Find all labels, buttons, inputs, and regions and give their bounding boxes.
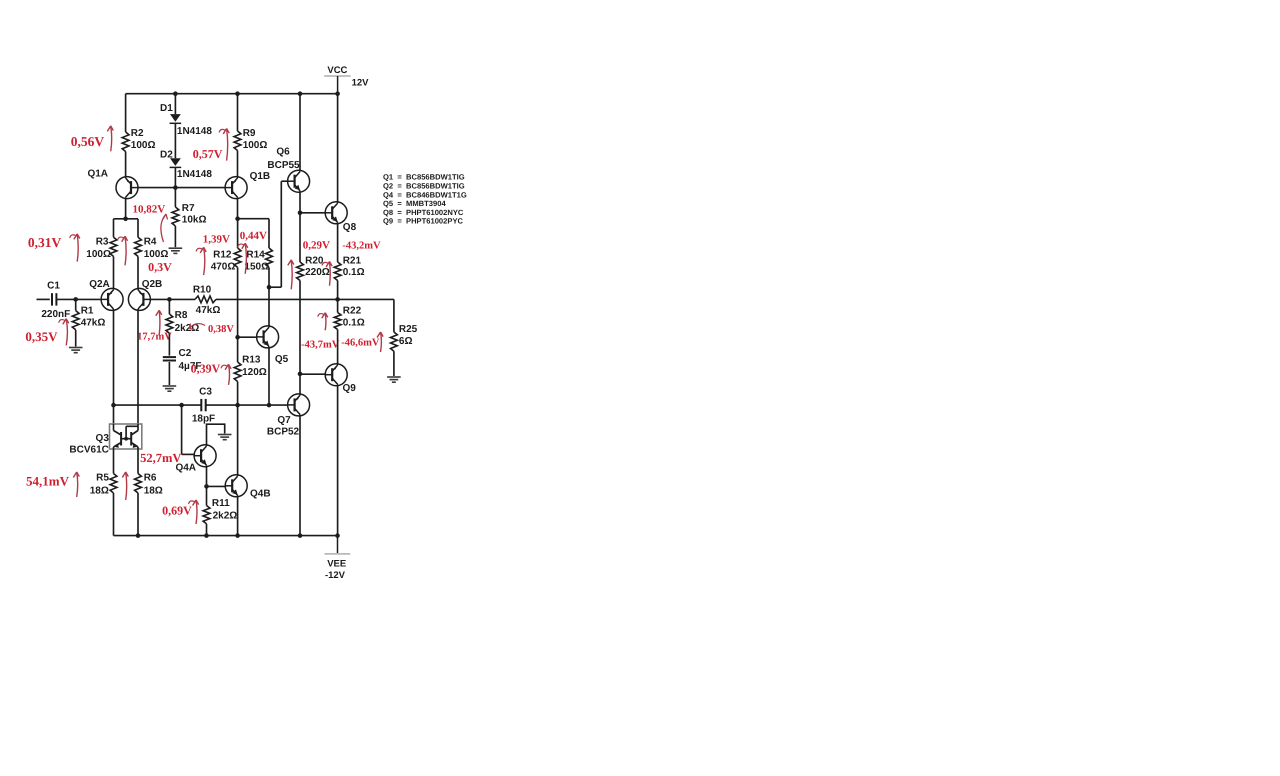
red label 0,35V bbox=[25, 329, 58, 344]
svg-text:-43,2mV: -43,2mV bbox=[342, 241, 381, 252]
svg-text:47kΩ: 47kΩ bbox=[196, 305, 221, 316]
wire C1 to Q2A base bbox=[56, 297, 100, 302]
resistor R9 bbox=[234, 94, 267, 151]
wire Q7 emitter to VEE rail bbox=[299, 416, 301, 536]
svg-text:0.1Ω: 0.1Ω bbox=[343, 267, 365, 278]
svg-text:VCC: VCC bbox=[327, 65, 347, 76]
svg-text:Q1A: Q1A bbox=[87, 169, 108, 180]
red label 0,39V bbox=[191, 362, 221, 376]
ground at Q4A bbox=[218, 435, 232, 440]
svg-text:Q3: Q3 bbox=[96, 433, 110, 444]
resistor R5 bbox=[90, 449, 117, 536]
red label 52,7mV bbox=[140, 451, 181, 465]
svg-text:0,69V: 0,69V bbox=[162, 504, 192, 518]
svg-text:R13: R13 bbox=[242, 355, 261, 366]
ground at C2 bbox=[163, 386, 177, 391]
wire Q8 collector bbox=[337, 94, 339, 202]
svg-text:Q2B: Q2B bbox=[142, 279, 163, 290]
wire Q4B emitter bbox=[237, 497, 239, 536]
svg-text:10kΩ: 10kΩ bbox=[182, 214, 207, 225]
svg-text:120Ω: 120Ω bbox=[242, 367, 267, 378]
svg-text:10,82V: 10,82V bbox=[133, 204, 166, 216]
svg-text:R20: R20 bbox=[305, 255, 324, 266]
transistor Q2B bbox=[128, 288, 150, 310]
wire VEE bottom rail bbox=[114, 533, 340, 538]
wire R8 to C2 bbox=[168, 333, 170, 355]
svg-text:C3: C3 bbox=[199, 387, 212, 398]
wire R22 to Q9 bbox=[337, 330, 339, 364]
svg-text:0,29V: 0,29V bbox=[303, 240, 330, 252]
wire Q8 base bbox=[300, 212, 325, 214]
wire R20 to Q7 bbox=[298, 281, 303, 394]
resistor R4 bbox=[135, 236, 169, 260]
label Q1B bbox=[250, 171, 271, 182]
wire Q1A base bbox=[138, 185, 178, 190]
wire Q4B collector bbox=[237, 405, 239, 475]
red label 17,7mV bbox=[137, 332, 172, 343]
wire R14 to Q6 base bbox=[269, 181, 288, 287]
svg-text:Q1B: Q1B bbox=[250, 171, 271, 182]
label Q4B bbox=[250, 489, 271, 500]
label Q3 bbox=[96, 433, 110, 444]
label Q9 bbox=[343, 383, 357, 394]
label Q7 type BCP52 bbox=[267, 426, 300, 437]
svg-text:0,56V: 0,56V bbox=[71, 134, 105, 149]
red arrow at R7 bbox=[161, 214, 168, 242]
svg-text:D2: D2 bbox=[160, 149, 173, 160]
red label 1,39V bbox=[203, 234, 230, 246]
ground at R7 bbox=[169, 248, 183, 253]
transistor Q2A bbox=[101, 288, 123, 310]
power symbol VEE bbox=[325, 536, 351, 581]
svg-text:Q5 = MMBT3904: Q5 = MMBT3904 bbox=[383, 199, 446, 208]
capacitor C2 bbox=[163, 348, 202, 372]
transistor Q4B bbox=[225, 475, 247, 497]
svg-text:Q9: Q9 bbox=[343, 383, 357, 394]
resistor R13 bbox=[234, 355, 267, 405]
wire Q9 emitter bbox=[337, 386, 339, 536]
svg-text:R21: R21 bbox=[343, 255, 362, 266]
svg-text:18pF: 18pF bbox=[192, 414, 215, 425]
label Q2B bbox=[142, 279, 163, 290]
wire Q6 collector bbox=[299, 94, 301, 171]
capacitor C1 bbox=[41, 281, 70, 321]
svg-text:17,7mV: 17,7mV bbox=[137, 332, 172, 343]
label Q5 bbox=[275, 354, 289, 365]
wire Q2B base to R10 bbox=[150, 297, 195, 302]
ground at R1 bbox=[69, 348, 83, 353]
svg-text:470Ω: 470Ω bbox=[211, 261, 236, 272]
svg-text:-12V: -12V bbox=[325, 570, 346, 581]
svg-text:R25: R25 bbox=[399, 324, 418, 335]
label Q8 bbox=[343, 222, 357, 233]
svg-text:Q4B: Q4B bbox=[250, 489, 271, 500]
resistor R14 bbox=[238, 219, 273, 290]
transistor Q5 bbox=[257, 326, 279, 348]
svg-text:R6: R6 bbox=[144, 473, 157, 484]
red arrow right of 54,1mV bbox=[73, 472, 79, 497]
svg-text:R12: R12 bbox=[213, 250, 232, 261]
svg-text:100Ω: 100Ω bbox=[131, 140, 156, 151]
red label -43,2mV bbox=[342, 241, 381, 252]
red arrow right of 0,69V bbox=[189, 500, 199, 524]
red label 0,44V bbox=[240, 230, 267, 242]
resistor R20 bbox=[297, 255, 330, 280]
wire node to Q1B base bbox=[175, 187, 225, 189]
svg-text:18Ω: 18Ω bbox=[90, 486, 109, 497]
transistor pair Q3 current mirror bbox=[110, 424, 142, 449]
label Q7 bbox=[277, 415, 291, 426]
diode D1 bbox=[160, 94, 212, 138]
label Q3 type BCV61C bbox=[69, 444, 108, 455]
red arrow between R20 R21 bbox=[322, 262, 332, 286]
resistor R10 bbox=[193, 284, 221, 316]
svg-text:12V: 12V bbox=[352, 78, 370, 89]
wire R9 to Q1B bbox=[237, 151, 239, 177]
red label -46,6mV bbox=[341, 338, 380, 349]
red label -43,7mV bbox=[301, 339, 340, 350]
wire Q4A collector to ground bbox=[207, 424, 225, 445]
svg-text:0,35V: 0,35V bbox=[25, 329, 58, 344]
resistor R21 bbox=[334, 255, 364, 280]
red label 54,1mV bbox=[26, 474, 70, 489]
label Q6 type BCP55 bbox=[267, 160, 300, 171]
svg-text:0,39V: 0,39V bbox=[191, 362, 221, 376]
wire Q9 base bbox=[300, 373, 326, 375]
ground at R25 bbox=[387, 377, 401, 382]
resistor R12 bbox=[211, 219, 241, 362]
wire C2 to ground bbox=[168, 362, 170, 385]
red label 10,82V bbox=[133, 204, 166, 216]
svg-text:R22: R22 bbox=[343, 306, 362, 317]
svg-text:220Ω: 220Ω bbox=[305, 267, 330, 278]
power symbol VCC bbox=[324, 65, 369, 94]
svg-text:VEE: VEE bbox=[327, 559, 346, 570]
red arrow between R5 R6 bbox=[122, 472, 128, 500]
wire Q5 collector bbox=[268, 287, 270, 326]
red label 0,38V bbox=[208, 324, 234, 335]
resistor R6 bbox=[135, 449, 163, 536]
red arrow at R9 bbox=[219, 129, 229, 161]
capacitor C3 bbox=[192, 387, 215, 425]
svg-text:1N4148: 1N4148 bbox=[177, 126, 212, 137]
wire Q5 base bbox=[235, 335, 256, 340]
svg-text:Q4 = BC846BDW1T1G: Q4 = BC846BDW1T1G bbox=[383, 190, 467, 199]
red arrow left of R22 bbox=[318, 313, 328, 331]
svg-text:Q2 = BC856BDW1TIG: Q2 = BC856BDW1TIG bbox=[383, 182, 465, 191]
transistor Q1B bbox=[225, 177, 247, 199]
red arrow at R2 bbox=[107, 126, 113, 151]
svg-text:-46,6mV: -46,6mV bbox=[341, 338, 380, 349]
svg-text:R14: R14 bbox=[246, 250, 265, 261]
svg-text:0.1Ω: 0.1Ω bbox=[343, 318, 365, 329]
svg-text:R9: R9 bbox=[243, 128, 256, 139]
svg-text:0,31V: 0,31V bbox=[28, 235, 62, 250]
svg-text:R8: R8 bbox=[175, 310, 188, 321]
red arrow between R3 R4 bbox=[118, 236, 128, 265]
red arrow right of 0,31V bbox=[70, 234, 80, 262]
svg-text:C2: C2 bbox=[179, 348, 192, 359]
svg-text:1N4148: 1N4148 bbox=[177, 169, 212, 180]
svg-text:R2: R2 bbox=[131, 128, 144, 139]
svg-text:18Ω: 18Ω bbox=[144, 486, 163, 497]
svg-text:R3: R3 bbox=[96, 236, 109, 247]
resistor R8 bbox=[166, 299, 199, 334]
red label 0,69V bbox=[162, 504, 192, 518]
svg-text:-43,7mV: -43,7mV bbox=[301, 339, 340, 350]
svg-text:Q7: Q7 bbox=[277, 415, 291, 426]
svg-text:0,44V: 0,44V bbox=[240, 230, 267, 242]
svg-text:47kΩ: 47kΩ bbox=[81, 318, 106, 329]
wire R21 to rail bbox=[337, 281, 339, 300]
wire Q8 emitter to R21 bbox=[337, 224, 339, 262]
resistor R1 bbox=[72, 299, 105, 346]
wire Q4A base riser bbox=[182, 405, 195, 454]
red label 0,29V bbox=[303, 240, 330, 252]
svg-text:0,3V: 0,3V bbox=[148, 260, 172, 274]
svg-text:Q1 = BC856BDW1TIG: Q1 = BC856BDW1TIG bbox=[383, 173, 465, 182]
svg-text:R11: R11 bbox=[212, 498, 230, 509]
svg-text:2k2Ω: 2k2Ω bbox=[213, 510, 238, 521]
red label 0,31V bbox=[28, 235, 62, 250]
red arrow right of 0,39V bbox=[221, 364, 231, 385]
wire R4 to Q2B bbox=[137, 256, 139, 288]
transistor Q9 bbox=[325, 364, 347, 386]
transistor Q8 bbox=[325, 202, 347, 224]
svg-text:R4: R4 bbox=[144, 236, 157, 247]
transistor Q7 bbox=[288, 394, 310, 416]
transistor type list bbox=[383, 173, 467, 226]
svg-text:150Ω: 150Ω bbox=[244, 261, 269, 272]
svg-text:Q8: Q8 bbox=[343, 222, 357, 233]
red arrow at R8 bbox=[156, 310, 162, 334]
wire Q5 emitter bbox=[267, 348, 272, 408]
red arrow left of R20 bbox=[288, 260, 294, 289]
transistor Q4A bbox=[194, 445, 216, 467]
red arrow below 0,44V bbox=[238, 243, 248, 274]
svg-text:0,38V: 0,38V bbox=[208, 324, 234, 335]
svg-text:100Ω: 100Ω bbox=[144, 249, 169, 260]
wire D2 to node bbox=[174, 167, 176, 187]
svg-text:R5: R5 bbox=[96, 473, 109, 484]
svg-text:R1: R1 bbox=[81, 306, 94, 317]
diode D2 bbox=[160, 149, 212, 180]
svg-text:220nF: 220nF bbox=[41, 309, 70, 320]
wire R3 to Q2A bbox=[113, 256, 115, 288]
red arrow below 1,39V bbox=[196, 247, 206, 275]
svg-text:100Ω: 100Ω bbox=[86, 249, 111, 260]
wire VCC top rail bbox=[126, 91, 340, 96]
svg-text:2k2Ω: 2k2Ω bbox=[175, 323, 200, 334]
label Q1A bbox=[87, 169, 108, 180]
resistor R22 bbox=[334, 299, 365, 329]
svg-text:Q4A: Q4A bbox=[175, 462, 196, 473]
resistor R11 bbox=[203, 498, 237, 535]
transistor Q1A bbox=[116, 177, 138, 199]
svg-text:Q9 = PHPT61002PYC: Q9 = PHPT61002PYC bbox=[383, 217, 464, 226]
svg-text:BCV61C: BCV61C bbox=[69, 444, 108, 455]
wire Q1B emitter bbox=[235, 199, 240, 221]
svg-text:Q2A: Q2A bbox=[89, 279, 110, 290]
resistor R3 bbox=[86, 236, 117, 260]
label Q2A bbox=[89, 279, 110, 290]
wire lower rail left bbox=[111, 403, 200, 408]
svg-text:R10: R10 bbox=[193, 284, 212, 295]
red arrow right of -46,6mV bbox=[377, 332, 383, 352]
resistor R7 bbox=[172, 188, 207, 248]
wire Q4A emitter bbox=[204, 467, 209, 506]
svg-text:54,1mV: 54,1mV bbox=[26, 474, 70, 489]
wire output rail bbox=[216, 297, 394, 302]
svg-text:1,39V: 1,39V bbox=[203, 234, 230, 246]
svg-text:R7: R7 bbox=[182, 203, 195, 214]
wire Q6 emitter to R20 bbox=[298, 192, 303, 262]
wire Q1A emitter to R3 R4 bbox=[114, 199, 139, 238]
wire D1 to D2 bbox=[174, 124, 176, 158]
svg-text:BCP55: BCP55 bbox=[267, 160, 300, 171]
svg-text:D1: D1 bbox=[160, 103, 173, 114]
svg-text:Q8 = PHPT61002NYC: Q8 = PHPT61002NYC bbox=[383, 208, 464, 217]
wire input bbox=[37, 298, 50, 300]
svg-text:Q5: Q5 bbox=[275, 354, 289, 365]
red label 0,3V bbox=[148, 260, 172, 274]
resistor R25 bbox=[391, 299, 418, 376]
red arrow left of 0,38V bbox=[190, 324, 206, 330]
label Q4A bbox=[175, 462, 196, 473]
wire Q4B base bbox=[207, 485, 226, 487]
svg-text:6Ω: 6Ω bbox=[399, 336, 413, 347]
transistor Q6 bbox=[288, 170, 310, 192]
svg-text:100Ω: 100Ω bbox=[243, 140, 268, 151]
svg-text:BCP52: BCP52 bbox=[267, 426, 300, 437]
red label 0,57V bbox=[193, 147, 223, 161]
svg-text:Q6: Q6 bbox=[276, 147, 290, 158]
wire Q2B collector bbox=[137, 310, 139, 424]
red arrow at R1 bbox=[59, 319, 69, 346]
resistor R2 bbox=[122, 94, 155, 152]
label Q6 bbox=[276, 147, 290, 158]
red label 0,56V bbox=[71, 134, 105, 149]
svg-text:0,57V: 0,57V bbox=[193, 147, 223, 161]
wire lower rail right bbox=[206, 403, 287, 408]
wire R2 to Q1A bbox=[125, 152, 127, 177]
wire Q2A collector bbox=[113, 310, 115, 424]
svg-text:C1: C1 bbox=[47, 281, 60, 292]
